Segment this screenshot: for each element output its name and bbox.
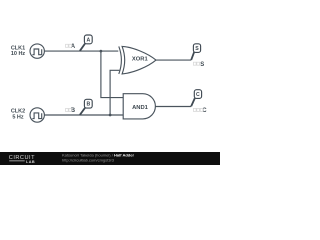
svg-text:B: B bbox=[87, 102, 91, 108]
svg-text:LAB: LAB bbox=[26, 160, 35, 164]
svg-text:C: C bbox=[196, 92, 200, 98]
svg-text:5 Hz: 5 Hz bbox=[12, 115, 24, 121]
svg-text:A: A bbox=[87, 37, 91, 43]
svg-text:XOR1: XOR1 bbox=[132, 57, 149, 63]
svg-text:10 Hz: 10 Hz bbox=[11, 51, 26, 57]
svg-text:S: S bbox=[200, 62, 204, 68]
svg-text:S: S bbox=[195, 46, 199, 52]
svg-text:http://circuitlab.com/cmgst3r3: http://circuitlab.com/cmgst3r3 bbox=[62, 158, 115, 163]
svg-text:AND1: AND1 bbox=[132, 105, 149, 111]
